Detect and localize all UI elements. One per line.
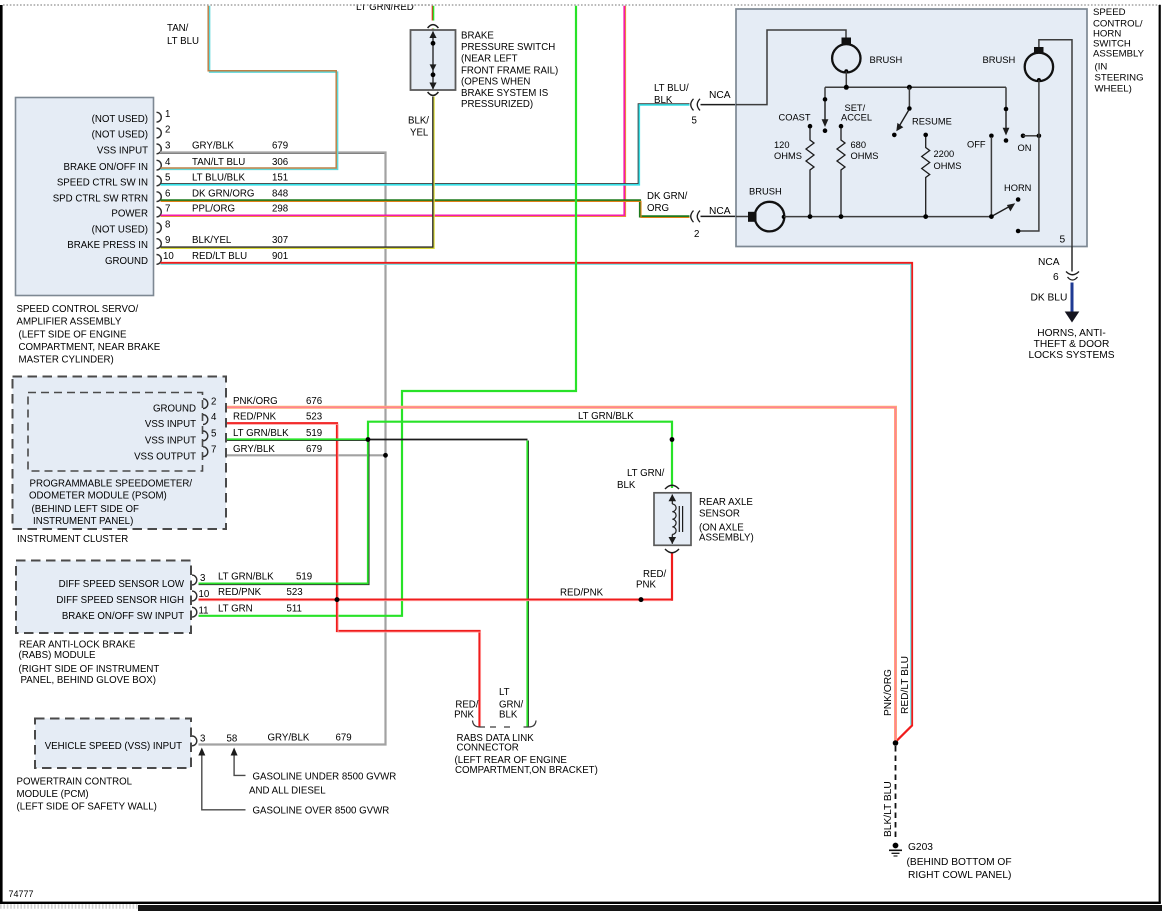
svg-text:LT GRN/: LT GRN/ (627, 468, 665, 479)
svg-text:VEHICLE SPEED (VSS) INPUT: VEHICLE SPEED (VSS) INPUT (45, 741, 182, 752)
RABS data link connector symbol (473, 721, 537, 728)
svg-text:679: 679 (272, 141, 288, 152)
right page border (1159, 5, 1161, 903)
svg-text:4: 4 (211, 412, 217, 423)
wire LT GRN/RED: top edge to brake pressure switch (350, 0, 433, 30)
svg-text:307: 307 (272, 235, 288, 246)
resistor 2200 ohms (922, 137, 962, 217)
svg-text:GRY/BLK: GRY/BLK (233, 444, 275, 455)
svg-text:PPL/ORG: PPL/ORG (192, 204, 235, 215)
wire black link: junction to RABS data link connector (LT GRN/BLK) (368, 440, 529, 728)
svg-text:REAR AXLE: REAR AXLE (699, 497, 753, 508)
servo pin 7 connector (157, 204, 289, 217)
svg-text:DK GRN/: DK GRN/ (647, 191, 688, 202)
svg-text:BRUSH: BRUSH (983, 54, 1016, 65)
servo pin 5 connector (157, 173, 289, 186)
junction node: PSOM pin7 / VSS gray trunk (383, 453, 388, 458)
wire LT GRN 511: top edge down to RABS pin11 (199, 6, 577, 616)
wire TAN/LT BLU 306: servo pin4 up to top edge (161, 6, 338, 170)
gasoline over 8500 pointer arrow (198, 748, 389, 817)
svg-text:SPEED CTRL SW IN: SPEED CTRL SW IN (57, 178, 148, 189)
coast contact (779, 113, 813, 129)
svg-text:BLK/YEL: BLK/YEL (192, 235, 232, 246)
svg-text:OHMS: OHMS (851, 151, 879, 161)
rear axle sensor body (654, 485, 691, 553)
svg-text:AND ALL DIESEL: AND ALL DIESEL (249, 786, 326, 797)
svg-text:676: 676 (306, 396, 322, 407)
svg-text:LT BLU/: LT BLU/ (654, 83, 689, 94)
svg-text:COAST: COAST (779, 113, 811, 123)
svg-text:BLK/LT BLU: BLK/LT BLU (883, 781, 894, 837)
svg-text:RED/LT BLU: RED/LT BLU (192, 251, 247, 262)
svg-text:POWER: POWER (111, 209, 148, 220)
PCM dashed box (35, 719, 191, 769)
svg-text:RED/: RED/ (643, 569, 666, 580)
svg-text:RED/LT BLU: RED/LT BLU (900, 656, 911, 714)
wire RED/PNK 523: PSOM pin4 down to RABS data link connector (208, 423, 481, 727)
svg-text:TAN/: TAN/ (167, 23, 189, 34)
svg-text:5: 5 (211, 429, 216, 440)
svg-text:(NOT USED): (NOT USED) (92, 224, 148, 235)
svg-text:PNK: PNK (454, 709, 474, 720)
svg-text:10: 10 (199, 589, 210, 600)
svg-text:ODOMETER MODULE (PSOM): ODOMETER MODULE (PSOM) (29, 491, 167, 502)
wire RED/PNK 523: RABS pin10 to rear axle sensor (199, 553, 673, 601)
wire PPL/ORG 298: servo pin7 up to top edge (161, 6, 626, 217)
svg-text:POWERTRAIN CONTROL: POWERTRAIN CONTROL (17, 777, 133, 788)
svg-text:LT BLU: LT BLU (167, 36, 199, 47)
svg-text:DIFF SPEED SENSOR HIGH: DIFF SPEED SENSOR HIGH (56, 595, 184, 606)
wire label RED/PNK at sensor (636, 569, 666, 591)
wire LT BLU/BLK 151: servo pin5 to NCA connector (161, 83, 690, 185)
svg-text:523: 523 (287, 587, 303, 598)
RABS pin 3 connector (192, 572, 312, 585)
RABS pin 11 connector (192, 603, 302, 617)
lower bus wire (784, 216, 991, 218)
wire LT GRN/BLK 519: PSOM pin5 to junction (208, 440, 368, 441)
svg-text:BRAKE: BRAKE (461, 31, 494, 42)
svg-text:848: 848 (272, 188, 288, 199)
rear axle sensor caption (699, 497, 754, 544)
bottom dotted strip (0, 904, 140, 909)
svg-text:NCA: NCA (1038, 257, 1060, 268)
RABS data link connector caption (455, 733, 598, 776)
svg-text:HORNS, ANTI-: HORNS, ANTI- (1037, 328, 1106, 339)
svg-text:OHMS: OHMS (934, 161, 962, 171)
svg-text:298: 298 (272, 204, 288, 215)
svg-text:3: 3 (165, 141, 170, 152)
svg-text:5: 5 (692, 116, 697, 127)
horn switch arm (991, 183, 1031, 217)
svg-text:SENSOR: SENSOR (699, 509, 740, 520)
svg-text:DIFF SPEED SENSOR LOW: DIFF SPEED SENSOR LOW (59, 579, 185, 590)
PCM caption (17, 777, 157, 813)
svg-text:6: 6 (1053, 272, 1059, 283)
svg-text:2: 2 (211, 396, 216, 407)
svg-text:WHEEL): WHEEL) (1095, 84, 1132, 95)
svg-text:HORN: HORN (1004, 183, 1031, 193)
svg-text:8: 8 (165, 219, 170, 230)
RABS module dashed box (16, 561, 191, 634)
svg-text:(RABS) MODULE: (RABS) MODULE (19, 650, 97, 661)
svg-text:(NOT USED): (NOT USED) (92, 130, 148, 141)
node lower bus at horn/off (989, 214, 994, 219)
junction node at G203 feed (893, 740, 899, 746)
servo pin 9 connector (157, 235, 289, 248)
svg-text:LT GRN/BLK: LT GRN/BLK (233, 428, 289, 439)
svg-text:(BEHIND LEFT SIDE OF: (BEHIND LEFT SIDE OF (32, 504, 140, 515)
NCA connector at servo pin6 circuit (691, 206, 736, 240)
PSOM pin labels (134, 403, 196, 462)
svg-text:OHMS: OHMS (774, 151, 802, 161)
svg-text:523: 523 (306, 412, 322, 423)
svg-text:SPD CTRL SW RTRN: SPD CTRL SW RTRN (53, 193, 148, 204)
svg-text:ASSEMBLY): ASSEMBLY) (699, 533, 754, 544)
svg-text:NCA: NCA (709, 206, 731, 217)
svg-text:LT GRN/BLK: LT GRN/BLK (218, 572, 274, 583)
servo pin 4 connector (157, 157, 289, 170)
svg-text:9: 9 (165, 235, 170, 246)
servo pin 10 connector (157, 251, 289, 264)
svg-text:901: 901 (272, 251, 288, 262)
svg-text:GASOLINE OVER 8500 GVWR: GASOLINE OVER 8500 GVWR (253, 806, 390, 817)
svg-text:PNK/ORG: PNK/ORG (233, 396, 278, 407)
svg-text:GASOLINE UNDER 8500 GVWR: GASOLINE UNDER 8500 GVWR (253, 772, 397, 783)
svg-text:COMPARTMENT,ON BRACKET): COMPARTMENT,ON BRACKET) (455, 765, 598, 776)
svg-text:PANEL, BEHIND GLOVE BOX): PANEL, BEHIND GLOVE BOX) (21, 675, 156, 686)
PSOM pin 4 connector (203, 412, 322, 425)
svg-text:(BEHIND BOTTOM OF: (BEHIND BOTTOM OF (907, 857, 1012, 868)
node lower bus at 2200 ohms (923, 214, 928, 219)
svg-text:11: 11 (199, 605, 209, 616)
svg-text:REAR ANTI-LOCK BRAKE: REAR ANTI-LOCK BRAKE (19, 640, 136, 651)
svg-text:RED/PNK: RED/PNK (560, 588, 604, 599)
node lower bus at 120 ohms (808, 214, 813, 219)
wire DK BLU off-page arrow (1031, 283, 1080, 323)
svg-text:AMPLIFIER ASSEMBLY: AMPLIFIER ASSEMBLY (17, 317, 122, 328)
instrument cluster outer dashed box (13, 377, 227, 530)
svg-text:THEFT & DOOR: THEFT & DOOR (1034, 339, 1110, 350)
svg-text:PROGRAMMABLE SPEEDOMETER/: PROGRAMMABLE SPEEDOMETER/ (30, 479, 193, 490)
right brush feed wire to pin 5 (1039, 40, 1072, 247)
svg-text:BLK/: BLK/ (408, 116, 429, 127)
svg-text:INSTRUMENT PANEL): INSTRUMENT PANEL) (33, 516, 133, 527)
svg-text:679: 679 (336, 733, 352, 744)
speed control servo/amplifier assembly box (16, 98, 154, 296)
ground G203 (889, 842, 1012, 881)
speed control/horn switch assembly box (736, 9, 1087, 247)
right brush (983, 47, 1054, 233)
svg-text:3: 3 (200, 573, 205, 584)
svg-text:306: 306 (272, 157, 288, 168)
svg-text:MASTER CYLINDER): MASTER CYLINDER) (19, 355, 114, 366)
svg-text:FRONT FRAME RAIL): FRONT FRAME RAIL) (461, 66, 558, 77)
PSOM caption (17, 479, 192, 546)
upper brush B+ (832, 38, 902, 88)
wire LT GRN/BLK 519: RABS pin3 up to junction (199, 440, 370, 585)
svg-text:5: 5 (1060, 235, 1066, 246)
junction node: PSOM pin4 / RABS pin10 (335, 597, 340, 602)
svg-text:BRAKE PRESS IN: BRAKE PRESS IN (67, 240, 148, 251)
svg-text:VSS OUTPUT: VSS OUTPUT (134, 451, 196, 462)
resume contact (912, 117, 952, 138)
servo pin 6 connector (157, 188, 289, 201)
svg-text:BRAKE ON/OFF SW INPUT: BRAKE ON/OFF SW INPUT (62, 611, 184, 622)
svg-text:VSS INPUT: VSS INPUT (145, 436, 196, 447)
junction node: RED/PNK to sensor (639, 597, 644, 602)
svg-text:RED/PNK: RED/PNK (233, 412, 277, 423)
svg-text:LT BLU/BLK: LT BLU/BLK (192, 173, 245, 184)
bottom taskbar black bar (138, 905, 1162, 911)
svg-text:G203: G203 (908, 842, 933, 853)
set/accel contact (839, 103, 872, 129)
svg-text:2: 2 (694, 229, 699, 240)
RABS data link wire labels (454, 687, 523, 720)
svg-text:(IN: (IN (1095, 62, 1108, 73)
svg-text:LT: LT (499, 687, 510, 698)
brake pressure switch body (411, 25, 456, 96)
servo pin 1 connector (157, 109, 171, 122)
svg-text:BLK: BLK (617, 480, 636, 491)
svg-text:151: 151 (272, 173, 288, 184)
horns systems caption (1028, 328, 1114, 361)
svg-text:BLK: BLK (499, 709, 518, 720)
coast/accel switch arm (822, 87, 829, 133)
svg-text:VSS INPUT: VSS INPUT (145, 419, 196, 430)
servo pin 3 connector (157, 141, 289, 154)
svg-text:INSTRUMENT CLUSTER: INSTRUMENT CLUSTER (17, 534, 128, 545)
svg-text:58: 58 (227, 734, 238, 745)
junction node: PSOM pin5 / RABS pin3 / sensor link (366, 437, 371, 442)
node lower bus at 680 ohms (839, 214, 844, 219)
PCM pin 3 connector (192, 733, 352, 746)
wire PNK/ORG 676: PSOM pin2 to G203 junction (208, 407, 896, 741)
svg-text:DK BLU: DK BLU (1031, 293, 1068, 304)
svg-text:COMPARTMENT, NEAR BRAKE: COMPARTMENT, NEAR BRAKE (19, 342, 161, 353)
PSOM pin 2 connector (203, 396, 322, 409)
brake pressure switch contacts (429, 31, 436, 90)
servo caption (17, 304, 161, 366)
svg-text:TAN/LT BLU: TAN/LT BLU (192, 157, 245, 168)
svg-text:MODULE (PCM): MODULE (PCM) (17, 789, 89, 800)
PSOM inner dashed box (28, 393, 203, 472)
svg-text:CONNECTOR: CONNECTOR (457, 743, 519, 754)
svg-text:VSS INPUT: VSS INPUT (97, 146, 148, 157)
switch assembly caption (1093, 7, 1145, 95)
rear axle sensor coil (669, 494, 683, 544)
svg-text:BRUSH: BRUSH (870, 54, 903, 65)
svg-text:679: 679 (306, 444, 322, 455)
off/on switch arm (1003, 87, 1010, 143)
svg-text:120: 120 (774, 140, 790, 150)
resistor 680 ohms (837, 128, 878, 217)
svg-text:YEL: YEL (410, 128, 429, 139)
PSOM pin 5 connector (203, 428, 322, 441)
svg-text:ORG: ORG (647, 203, 669, 214)
wire LT GRN/BLK: junction up and over to rear axle sensor (368, 411, 672, 488)
resume switch arm (892, 87, 912, 137)
NCA connector pin 6 below box (1038, 247, 1079, 284)
svg-text:2: 2 (165, 125, 170, 136)
svg-text:LOCKS SYSTEMS: LOCKS SYSTEMS (1028, 350, 1114, 361)
svg-text:ASSEMBLY: ASSEMBLY (1093, 48, 1145, 59)
lower brush (736, 186, 786, 232)
wire label LT GRN/BLK at sensor (617, 468, 665, 491)
wire DK GRN/ORG 848: servo pin6 to NCA connector (161, 191, 690, 218)
NCA connector at servo pin5 circuit (691, 90, 736, 127)
svg-text:PNK/ORG: PNK/ORG (883, 669, 894, 716)
bottom page border (0, 902, 1161, 904)
wire from NCA 5 to upper brush (736, 30, 846, 105)
svg-text:519: 519 (306, 428, 322, 439)
wire BLK/YEL 307: servo pin9 to brake pressure switch (161, 97, 435, 249)
wire RED/LT BLU 901: servo pin10 to G203 junction (161, 263, 913, 743)
svg-text:GRY/BLK: GRY/BLK (192, 141, 234, 152)
svg-text:RED/PNK: RED/PNK (218, 587, 262, 598)
svg-text:519: 519 (296, 572, 312, 583)
svg-text:PNK: PNK (636, 580, 656, 591)
svg-text:RESUME: RESUME (912, 117, 952, 127)
svg-text:BRAKE SYSTEM IS: BRAKE SYSTEM IS (461, 88, 549, 99)
resistor 120 ohms (774, 128, 814, 217)
svg-text:OFF: OFF (967, 140, 986, 150)
svg-text:6: 6 (165, 188, 170, 199)
svg-text:DK GRN/ORG: DK GRN/ORG (192, 188, 254, 199)
svg-text:511: 511 (287, 603, 302, 614)
svg-text:(RIGHT SIDE OF INSTRUMENT: (RIGHT SIDE OF INSTRUMENT (19, 664, 160, 675)
svg-text:2200: 2200 (934, 149, 955, 159)
svg-text:(NOT USED): (NOT USED) (92, 114, 148, 125)
brake pressure switch caption (461, 31, 558, 111)
svg-text:LT GRN/BLK: LT GRN/BLK (578, 411, 634, 422)
servo pin 2 connector (157, 125, 171, 138)
wire BLK/LT BLU dashed to ground (883, 746, 896, 841)
svg-text:SET/: SET/ (845, 103, 866, 113)
svg-text:(LEFT SIDE OF SAFETY WALL): (LEFT SIDE OF SAFETY WALL) (17, 802, 157, 813)
svg-text:SPEED CONTROL SERVO/: SPEED CONTROL SERVO/ (17, 304, 139, 315)
svg-text:5: 5 (165, 173, 170, 184)
svg-text:4: 4 (165, 157, 171, 168)
svg-text:PRESSURIZED): PRESSURIZED) (461, 99, 533, 110)
svg-text:PRESSURE SWITCH: PRESSURE SWITCH (461, 42, 555, 53)
svg-text:SPEED: SPEED (1093, 7, 1126, 18)
svg-text:ACCEL: ACCEL (841, 113, 872, 123)
svg-text:680: 680 (851, 140, 867, 150)
svg-text:7: 7 (211, 444, 216, 455)
svg-text:ON: ON (1018, 143, 1032, 153)
svg-text:LT GRN: LT GRN (218, 603, 253, 614)
svg-text:(NEAR LEFT: (NEAR LEFT (461, 54, 518, 65)
svg-text:7: 7 (165, 204, 170, 215)
svg-text:(LEFT SIDE OF ENGINE: (LEFT SIDE OF ENGINE (19, 330, 128, 341)
svg-text:10: 10 (163, 251, 174, 262)
servo pin 8 connector (157, 219, 171, 232)
node on bus at brush (844, 85, 849, 90)
top dotted page border (3, 4, 1162, 6)
wire GRY/BLK 679 net: servo pin3 to PCM, branch PSOM pin7 (160, 153, 386, 745)
junction node on sensor green drop (670, 437, 675, 442)
svg-text:(OPENS WHEN: (OPENS WHEN (461, 77, 530, 88)
svg-text:GRY/BLK: GRY/BLK (268, 733, 310, 744)
RABS caption (19, 640, 160, 687)
svg-text:GROUND: GROUND (153, 403, 196, 414)
PSOM pin 7 connector (203, 444, 322, 457)
RABS pin labels (56, 579, 184, 622)
on contact (1018, 134, 1042, 154)
off contact (967, 134, 994, 217)
svg-text:NCA: NCA (709, 90, 731, 101)
svg-text:74777: 74777 (9, 889, 34, 899)
gasoline under 8500 pointer arrow (231, 748, 397, 797)
svg-text:1: 1 (165, 109, 170, 120)
svg-text:3: 3 (200, 734, 205, 745)
svg-text:BLK: BLK (654, 95, 673, 106)
upper bus wire (825, 86, 1006, 88)
svg-text:STEERING: STEERING (1095, 73, 1144, 84)
left page border (0, 5, 3, 903)
svg-text:GROUND: GROUND (105, 256, 148, 267)
node on bus at resume (907, 85, 912, 90)
RABS pin 10 connector (192, 587, 303, 601)
svg-text:BRAKE ON/OFF IN: BRAKE ON/OFF IN (63, 162, 148, 173)
svg-text:RIGHT COWL PANEL): RIGHT COWL PANEL) (908, 870, 1011, 881)
svg-text:BRUSH: BRUSH (749, 186, 782, 197)
